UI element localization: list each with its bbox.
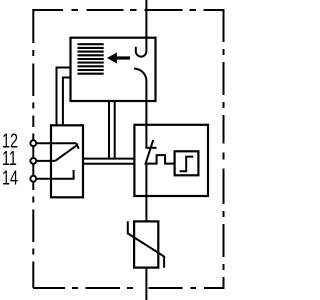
terminal 12 wire: [33, 142, 76, 144]
disconnector box U1: [71, 38, 156, 101]
mechanical linkage vertical pair: [109, 101, 115, 159]
wire: feed into thermal switch: [145, 125, 147, 149]
terminal 11 circle: [30, 158, 36, 164]
signal output box: [175, 151, 199, 175]
disconnect direction arrow: [107, 52, 117, 63]
changeover blade: [56, 145, 78, 161]
thermal switch blade: [145, 140, 153, 165]
disconnector moving contact J-curl: [136, 47, 147, 57]
enclosure boundary bottom edge (dash-dot): [33, 287, 225, 289]
terminal 11 wire: [33, 160, 55, 162]
mechanical linkage horizontal pair: [83, 159, 135, 164]
terminal 12 circle: [30, 140, 36, 146]
monitoring box U2: [134, 125, 208, 196]
enclosure boundary top edge (dash-dot): [33, 9, 224, 11]
svg-text:14: 14: [2, 166, 18, 189]
wire: varistor to bottom edge: [145, 268, 147, 300]
wire: main line top entry: [145, 0, 147, 51]
enclosure boundary left edge (dash-dot): [32, 9, 34, 288]
wire: upper coil lead from disconnector box to signal contact box: [57, 68, 71, 127]
remote signalling contact box K1: [51, 125, 83, 197]
fixed contact tick: [145, 147, 156, 149]
wire: lower coil lead from disconnector box to signal contact box: [63, 78, 71, 127]
step symbol inside signal box: [180, 157, 194, 172]
disconnector lower crook arc and wire down to monitoring box: [134, 69, 146, 127]
enclosure boundary right edge (dash-dot): [223, 9, 225, 288]
signal square-wave wire: [145, 155, 174, 164]
electrode hatch stack: [78, 44, 104, 73]
terminal 14 circle: [30, 176, 36, 182]
terminal 14 wire with contact seat: [33, 170, 73, 179]
blade tip tick: [76, 143, 78, 149]
varistor diagonal stroke: [128, 221, 164, 267]
varistor RV1 body: [134, 221, 158, 267]
wire: below switch down to varistor: [145, 164, 147, 221]
